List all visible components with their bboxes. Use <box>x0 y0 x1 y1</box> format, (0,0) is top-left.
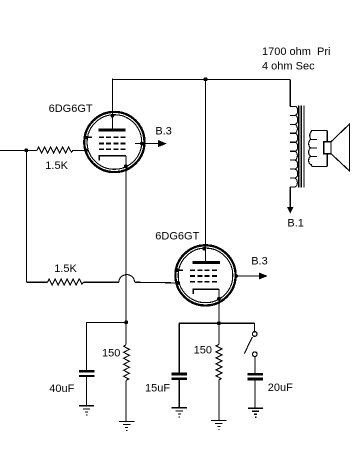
resistor R3 150 <box>124 345 130 381</box>
wire C1 to ground <box>85 377 87 405</box>
V1 plate bar <box>99 129 126 132</box>
vacuum tube V1 6DG6GT envelope <box>84 112 144 172</box>
ground G1 <box>79 405 94 415</box>
wire C2 to ground <box>178 380 180 408</box>
speaker SP1 horn <box>331 124 349 171</box>
arrow B.1 head <box>287 207 294 214</box>
capacitor C2 15uF <box>172 373 188 376</box>
node junction top bus to V2 plate <box>204 77 208 81</box>
wire B.3 arrow V2 <box>236 275 260 277</box>
speaker SP1 driver <box>324 142 331 154</box>
node cathode junction V2 <box>217 321 221 325</box>
ground G2 <box>119 421 134 431</box>
svg-text:150: 150 <box>102 348 120 360</box>
resistor R1 1.5K <box>37 147 73 153</box>
node V1 grid stub dot <box>85 136 88 139</box>
node V2 grid input dot <box>176 281 180 285</box>
svg-text:4 ohm Sec: 4 ohm Sec <box>262 61 315 73</box>
ground G4 <box>211 420 226 430</box>
V2 plate bar <box>193 261 220 264</box>
V1 grid stub left <box>84 136 92 138</box>
wire V2 plate lead <box>205 79 207 261</box>
svg-text:15uF: 15uF <box>145 383 170 395</box>
transformer T1 primary winding <box>290 106 298 187</box>
switch SW1 lever <box>244 337 252 354</box>
wire grid input left rail <box>0 149 37 151</box>
capacitor C1 40uF <box>79 370 94 372</box>
node V1 grid input dot <box>84 148 88 152</box>
V2 grid row 3 <box>190 281 217 283</box>
node V2 cathode dot <box>217 297 221 301</box>
wire B.3 arrow V1 <box>135 143 160 145</box>
svg-text:B.3: B.3 <box>251 255 268 267</box>
V1 grid row 2 <box>99 143 126 145</box>
wire drop to R2 <box>25 150 27 282</box>
wire switch to C3 <box>254 357 256 373</box>
T1 primary turn ticks <box>290 115 295 178</box>
node V1 cathode dot <box>124 164 128 168</box>
transformer T1 primary lead top <box>289 79 291 106</box>
svg-text:1.5K: 1.5K <box>45 160 68 172</box>
V2 grid row 1 <box>190 269 217 271</box>
wire C3 to ground <box>254 380 256 408</box>
vacuum tube V2 6DG6GT envelope <box>175 245 235 305</box>
svg-text:40uF: 40uF <box>49 383 74 395</box>
switch SW1 top contact <box>252 332 257 337</box>
svg-text:B.3: B.3 <box>155 126 172 138</box>
wire R1 to V1 grid <box>73 149 86 151</box>
resistor R2 1.5K <box>48 279 84 285</box>
wire cathode bus <box>179 322 254 324</box>
wire corner to R2 <box>26 281 47 283</box>
ground G3 <box>172 407 187 417</box>
T1 secondary winding <box>309 130 328 166</box>
node V2 grid stub dot <box>176 269 179 272</box>
V2 grid stub left <box>175 269 183 271</box>
node V1 plate top dot <box>111 114 115 118</box>
T1 core <box>299 106 304 188</box>
node cathode junction V1 <box>124 320 128 324</box>
ground G5 <box>248 408 263 418</box>
wire branch to C1 <box>86 322 126 370</box>
wire B.1 drop <box>289 187 291 207</box>
wire R3 to ground <box>125 380 127 421</box>
wire R2 to hop <box>84 281 119 283</box>
wire top bus from V1 plate to transformer <box>112 78 290 80</box>
svg-text:B.1: B.1 <box>287 217 304 229</box>
node V2 screen dot <box>234 274 238 278</box>
node input junction <box>24 148 28 152</box>
node V1 screen dot <box>140 142 144 146</box>
svg-text:1.5K: 1.5K <box>54 263 77 275</box>
wire V1 cathode drop <box>125 156 127 345</box>
wire V1 plate lead <box>111 79 113 130</box>
T1 secondary turn ticks <box>311 140 317 157</box>
node V2 plate top dot <box>202 247 206 251</box>
wire R4 to ground <box>218 380 220 420</box>
wire hop over cathode line <box>119 275 135 283</box>
resistor R4 150 <box>216 344 222 380</box>
svg-text:1700 ohm Pri: 1700 ohm Pri <box>262 46 330 58</box>
wire to switch <box>253 323 255 331</box>
wire V2 cathode drop <box>218 289 220 344</box>
svg-text:20uF: 20uF <box>268 382 293 394</box>
V1 grid row 3 <box>99 148 126 150</box>
svg-text:6DG6GT: 6DG6GT <box>155 230 199 242</box>
wire secondary right side <box>326 130 328 166</box>
wire hop to V2 grid <box>135 281 177 284</box>
V2 grid row 2 <box>190 275 217 277</box>
svg-text:6DG6GT: 6DG6GT <box>49 103 93 115</box>
V2 cathode <box>193 289 219 294</box>
switch SW1 bottom contact <box>253 352 258 357</box>
V1 grid row 1 <box>99 136 126 138</box>
svg-text:150: 150 <box>194 345 212 357</box>
V1 cathode <box>99 156 126 161</box>
wire branch to C2 <box>178 323 180 373</box>
capacitor C3 20uF <box>248 373 264 376</box>
